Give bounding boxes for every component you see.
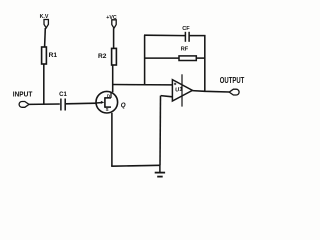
wire source down [111,113,113,166]
wire RF left [145,57,179,59]
wire INPUT to C1 [29,103,60,105]
capacitor CF [185,32,189,42]
svg-text:R1: R1 [49,52,58,59]
capacitor C1 [61,99,65,111]
wire +VC to R2 [113,28,115,48]
svg-text:RF: RF [181,46,189,52]
wire feedback left vertical [144,35,146,84]
svg-text:INPUT: INPUT [13,89,33,98]
terminal +VC [112,20,116,28]
wire op-amp + input to ground vertical [161,96,173,97]
terminal INPUT [19,102,29,108]
svg-text:CF: CF [182,26,190,32]
wire op-amp output [192,91,229,92]
terminal K.V [44,20,48,28]
svg-text:Q: Q [121,102,126,109]
resistor R2 [112,48,117,65]
wire CF to right vertical [190,35,206,37]
svg-text:S: S [106,107,109,112]
wire C1 to gate [66,102,96,105]
resistor RF [179,56,196,61]
svg-text:D: D [107,93,110,98]
svg-text:OUTPUT: OUTPUT [220,76,245,85]
terminal OUTPUT [229,89,239,95]
wire drain node to op-amp inverting input [112,84,172,86]
svg-text:U1: U1 [175,87,183,94]
transistor Q [96,91,118,113]
svg-text:C1: C1 [59,92,67,98]
wire ground vertical [159,96,162,166]
ground [155,165,165,176]
wire top feedback to CF [144,34,185,36]
wire feedback right vertical to output [204,35,206,92]
wire bottom horizontal [111,164,160,167]
svg-text:R2: R2 [98,53,107,60]
op-amp U1 [172,74,192,106]
wire R1 to input line [43,64,45,105]
resistor R1 [42,47,47,64]
wire RF right [196,57,205,59]
wire K.V to R1 [44,28,47,47]
op-amp input polarity mark [174,83,176,85]
wire R2 to drain, node at inverting line [112,65,114,92]
